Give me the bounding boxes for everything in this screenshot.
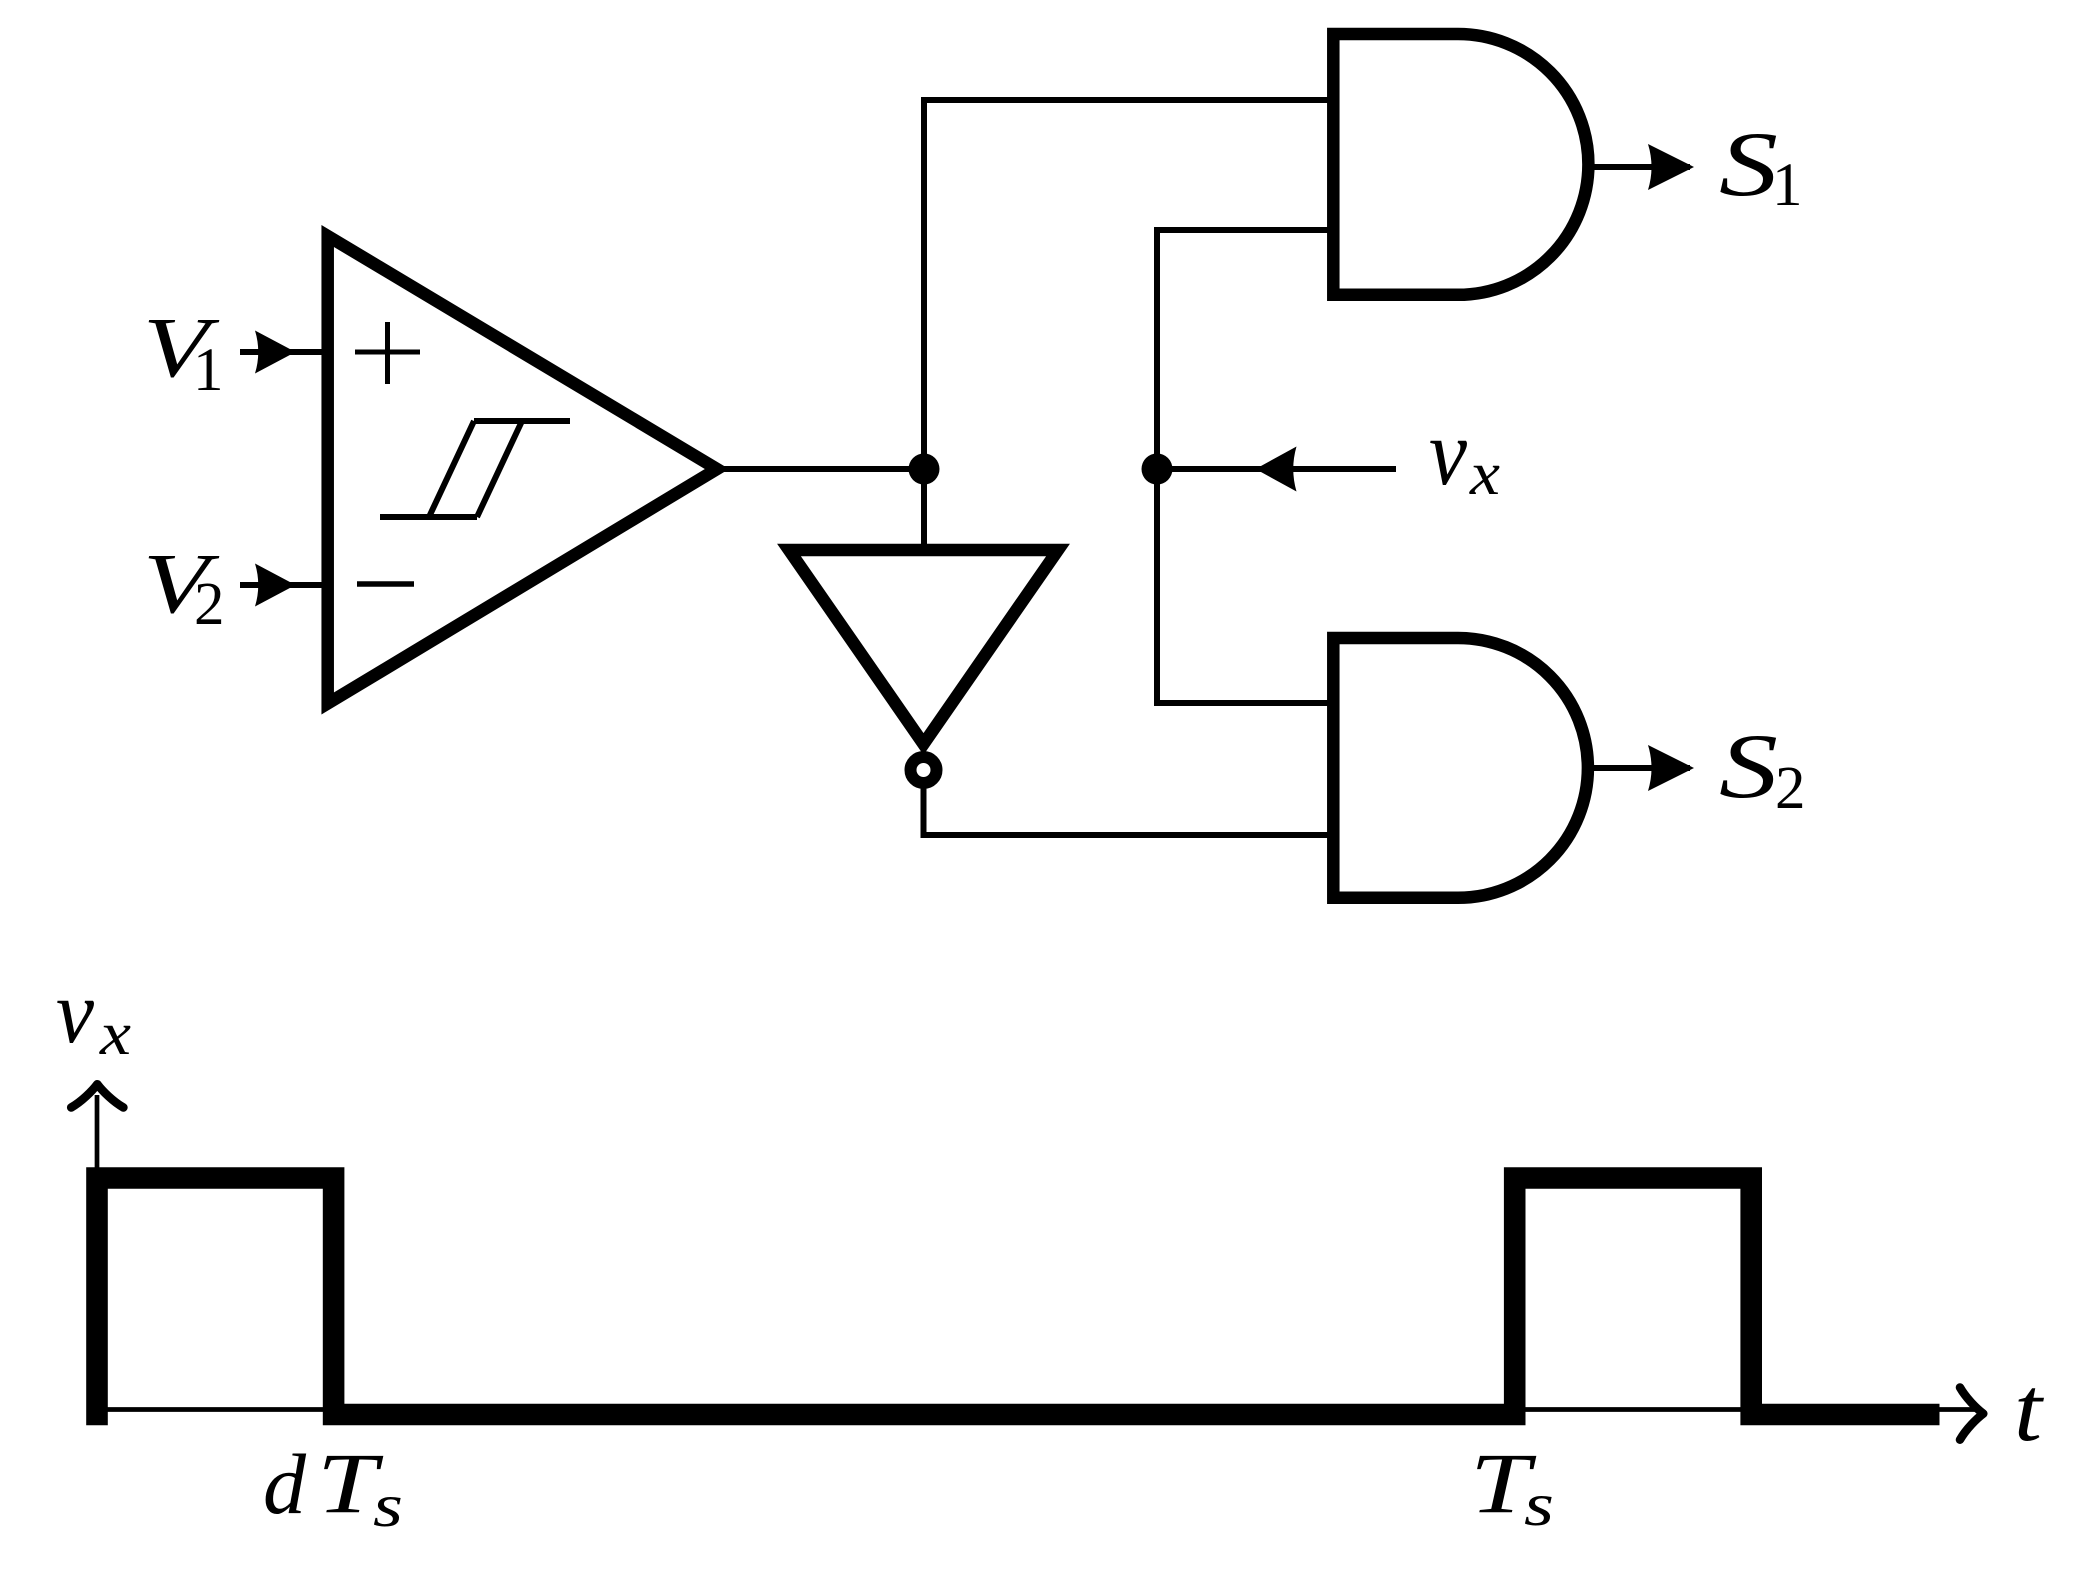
- svg-text:v: v: [1429, 401, 1467, 505]
- inverter bubble: [911, 757, 937, 783]
- plus label (non-inverting input): [355, 322, 420, 384]
- wire inverter output down and right to AND2 bottom input: [924, 783, 1328, 835]
- t axis arrowhead: [1960, 1388, 1983, 1440]
- arrowhead S2 output: [1648, 745, 1694, 791]
- wire V1 input: [240, 349, 328, 355]
- svg-text:v: v: [56, 963, 94, 1062]
- arrowhead on V1 wire: [255, 331, 296, 374]
- wire comparator output to node A: [717, 466, 924, 472]
- arrowhead on vx wire (pointing left): [1256, 447, 1297, 492]
- arrowhead on V2 wire: [255, 564, 296, 607]
- svg-text:1: 1: [1772, 152, 1803, 219]
- svg-text:d: d: [263, 1436, 307, 1532]
- wire vx input to node B: [1157, 466, 1396, 472]
- svg-text:S: S: [1719, 715, 1778, 817]
- v axis arrowhead: [71, 1084, 123, 1107]
- waveform t axis (thin): [88, 1407, 1977, 1412]
- svg-text:s: s: [373, 1473, 403, 1540]
- svg-text:2: 2: [1775, 755, 1806, 822]
- svg-text:t: t: [2014, 1358, 2045, 1460]
- inverter U2 (triangle pointing down): [789, 550, 1058, 744]
- waveform v axis (thin): [95, 1095, 100, 1425]
- comparator U1 (hysteresis comparator): [328, 236, 717, 704]
- svg-text:S: S: [1719, 113, 1778, 215]
- wire AND2 output: [1588, 765, 1690, 771]
- svg-text:2: 2: [194, 571, 225, 638]
- node A junction dot: [909, 454, 940, 485]
- arrowhead S1 output: [1648, 144, 1694, 190]
- wire node B down and right to AND2 top input: [1157, 469, 1328, 703]
- svg-text:1: 1: [193, 337, 224, 404]
- wire node B up and right to AND1 bottom input: [1157, 230, 1328, 469]
- wire node A up and right to AND1 top input: [924, 100, 1328, 469]
- minus label (inverting input): [357, 581, 414, 587]
- AND gate U4 (bottom): [1333, 638, 1588, 898]
- wire node A down to inverter input: [921, 469, 927, 549]
- svg-text:x: x: [1469, 441, 1500, 508]
- hysteresis symbol inside U1: [380, 421, 570, 517]
- wire V2 input: [240, 582, 328, 588]
- svg-text:x: x: [99, 1001, 131, 1068]
- AND gate U3 (top): [1333, 34, 1588, 295]
- node B junction dot: [1142, 454, 1173, 485]
- svg-text:s: s: [1524, 1472, 1554, 1539]
- wire AND1 output: [1588, 164, 1690, 170]
- vx waveform (thick pulses): [97, 1178, 1940, 1425]
